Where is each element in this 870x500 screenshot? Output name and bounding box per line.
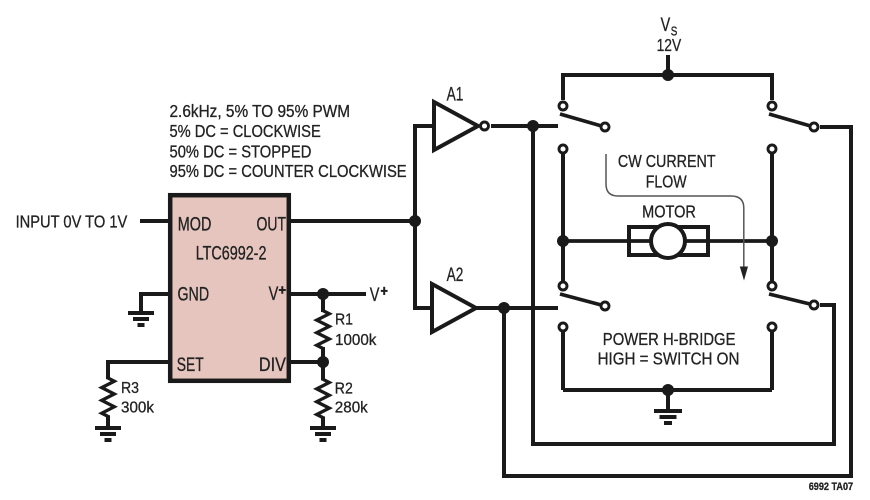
svg-text:95% DC = COUNTER CLOCKWISE: 95% DC = COUNTER CLOCKWISE: [170, 162, 407, 181]
svg-text:INPUT 0V TO 1V: INPUT 0V TO 1V: [16, 213, 128, 233]
svg-text:V: V: [661, 14, 671, 35]
svg-text:V: V: [269, 283, 279, 304]
svg-text:300k: 300k: [121, 399, 154, 416]
svg-text:DIV: DIV: [259, 354, 286, 376]
svg-text:CW CURRENT: CW CURRENT: [618, 153, 716, 172]
svg-text:S: S: [671, 25, 678, 39]
svg-text:R3: R3: [121, 379, 139, 397]
svg-text:GND: GND: [178, 284, 210, 306]
svg-text:LTC6992-2: LTC6992-2: [196, 243, 267, 264]
svg-text:R2: R2: [335, 380, 353, 398]
svg-text:5% DC = CLOCKWISE: 5% DC = CLOCKWISE: [170, 122, 321, 142]
svg-text:6992 TA07: 6992 TA07: [809, 481, 854, 493]
svg-text:MOTOR: MOTOR: [642, 202, 696, 222]
svg-text:FLOW: FLOW: [646, 173, 687, 192]
svg-text:280k: 280k: [335, 399, 368, 416]
svg-text:SET: SET: [177, 354, 204, 376]
svg-text:12V: 12V: [657, 37, 682, 56]
svg-text:2.6kHz, 5% TO 95% PWM: 2.6kHz, 5% TO 95% PWM: [170, 102, 351, 121]
svg-text:50% DC = STOPPED: 50% DC = STOPPED: [170, 142, 312, 161]
svg-text:OUT: OUT: [257, 214, 287, 236]
svg-text:HIGH = SWITCH ON: HIGH = SWITCH ON: [598, 350, 740, 369]
svg-text:R1: R1: [335, 311, 353, 329]
svg-text:V: V: [370, 284, 380, 305]
svg-text:MOD: MOD: [178, 214, 212, 235]
svg-text:1000k: 1000k: [335, 332, 377, 349]
svg-text:A2: A2: [447, 264, 464, 286]
svg-text:A1: A1: [447, 83, 464, 105]
svg-text:POWER H-BRIDGE: POWER H-BRIDGE: [603, 330, 736, 349]
